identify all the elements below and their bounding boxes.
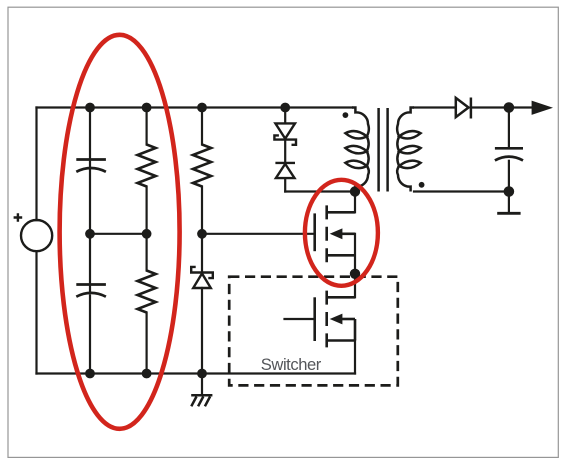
transformer T1 primary winding: [345, 108, 368, 192]
node bottom bus ground: [197, 369, 207, 379]
diode D4 (output rectifier): [456, 98, 471, 119]
wire column A upper segments: [89, 108, 91, 234]
wire output node to arrow: [509, 106, 532, 108]
Q1 body arrow: [330, 228, 343, 239]
transformer T1 core: [379, 108, 388, 192]
node output bottom: [504, 186, 515, 197]
node top bus A: [85, 103, 95, 113]
wire bottom bus: [37, 372, 356, 374]
node primary bottom / Q1 drain: [350, 186, 360, 196]
svg-text:Switcher: Switcher: [261, 355, 322, 374]
voltage source V1: [14, 213, 53, 251]
red ellipse annotation (Q1): [305, 180, 378, 286]
wire gate feed to Q1: [202, 233, 315, 235]
wire left rail lower: [35, 251, 37, 373]
node bottom bus A: [85, 369, 95, 379]
wire left rail upper: [35, 108, 37, 221]
primary phase dot: [343, 112, 349, 118]
resistor R2: [138, 271, 156, 313]
output ground bar: [497, 212, 520, 215]
MOSFET Q1: [315, 205, 355, 262]
wire output ground lead: [508, 192, 510, 214]
node mid row B: [142, 229, 152, 239]
wire top bus: [37, 106, 353, 108]
zener diode D2 (clamp): [274, 123, 296, 144]
node Q1 source / Q2 drain: [350, 269, 360, 279]
output arrow: [532, 101, 553, 115]
wire ground lead: [201, 374, 203, 395]
wire Q2 gate stub: [285, 318, 315, 320]
Switcher dashed box: [229, 277, 398, 386]
red ellipse annotation (bulk filter): [60, 35, 180, 429]
secondary phase dot: [419, 182, 425, 188]
resistor R3: [193, 145, 211, 187]
diode D3 (clamp): [275, 163, 295, 178]
capacitor C2: [76, 285, 106, 297]
wire output cap top lead: [508, 108, 510, 149]
wire Q1 source to node vertical: [354, 234, 356, 274]
node mid row A: [85, 229, 95, 239]
capacitor C1: [76, 160, 106, 172]
transformer T1 secondary winding: [397, 108, 420, 192]
resistor R1: [138, 145, 156, 187]
wire output cap bottom lead: [508, 161, 510, 192]
wire column C segments: [201, 108, 203, 374]
wire secondary top lead: [414, 106, 456, 108]
zener diode D1: [191, 267, 213, 288]
node top bus B: [142, 103, 152, 113]
node top bus C: [197, 103, 207, 113]
wire node to Q2 drain vertical: [354, 274, 356, 298]
wire Q1 drain vertical: [354, 192, 356, 213]
wire clamp to primary bottom: [285, 190, 352, 192]
node bottom bus B: [142, 369, 152, 379]
wire secondary bottom lead: [414, 190, 509, 192]
wire clamp column segments: [284, 108, 286, 192]
node top bus clamp: [280, 103, 290, 113]
ground: [191, 395, 212, 406]
wire Q2 source to bottom bus: [354, 341, 356, 374]
wire middle row C1-R2: [90, 233, 147, 235]
MOSFET Q2: [315, 291, 355, 348]
capacitor C3 (output): [495, 148, 523, 160]
wire column A lower segments: [89, 234, 91, 374]
wire diode to output node: [471, 106, 509, 108]
node mid row C: [197, 229, 207, 239]
Q2 body arrow: [330, 314, 343, 325]
node output top: [504, 102, 515, 113]
wire column B segments: [146, 108, 148, 374]
